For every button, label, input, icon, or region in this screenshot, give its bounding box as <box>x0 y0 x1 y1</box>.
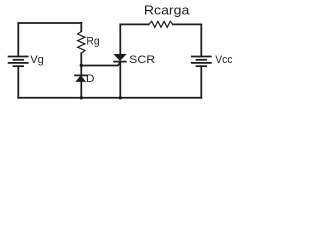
wire bottom horizontal <box>18 97 201 99</box>
node gate junction <box>80 64 83 67</box>
wire top-right horizontal right part <box>173 23 201 25</box>
battery Vcc <box>192 57 211 67</box>
wire SCR anode lead <box>119 24 121 54</box>
wire top-right horizontal left part <box>120 23 148 25</box>
battery Vg <box>9 57 28 67</box>
node diode bottom junction <box>80 96 83 99</box>
wire gate horizontal <box>81 62 120 65</box>
svg-text:Vcc: Vcc <box>215 54 233 66</box>
wire left vertical upper <box>17 23 19 57</box>
wire right vertical upper <box>200 24 202 56</box>
svg-text:Vg: Vg <box>30 54 44 66</box>
wire top-left horizontal <box>18 22 81 24</box>
node SCR bottom junction <box>119 96 122 99</box>
svg-text:SCR: SCR <box>129 54 155 66</box>
wire Rg to diode <box>80 53 82 75</box>
wire left vertical lower <box>17 66 19 98</box>
wire right vertical lower <box>200 66 202 98</box>
svg-text:Rcarga: Rcarga <box>144 4 190 18</box>
svg-text:Rg: Rg <box>86 36 99 48</box>
SCR U1 <box>114 55 126 62</box>
svg-text:D: D <box>86 73 95 85</box>
wire SCR cathode to bottom <box>119 62 121 98</box>
resistor Rcarga <box>149 21 173 27</box>
wire diode to bottom <box>80 82 82 98</box>
resistor Rg <box>78 31 85 53</box>
wire Rg top lead <box>80 23 82 31</box>
diode D <box>75 75 86 81</box>
